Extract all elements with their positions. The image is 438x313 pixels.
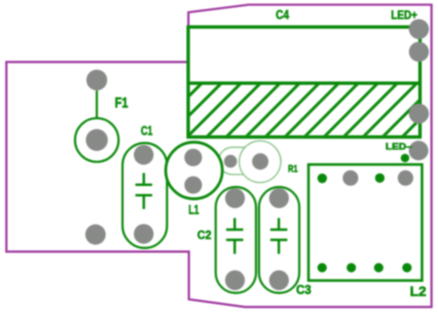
pad L1 pin 2 [184, 176, 202, 194]
L2 pin dots top row [317, 174, 327, 184]
pad R1 left [224, 155, 237, 168]
L2 pin dots bottom row [317, 263, 326, 272]
svg-text:C2: C2 [197, 228, 211, 242]
capacitor C1 body [123, 143, 168, 248]
C4 divider line [188, 81, 420, 84]
pad F1 top [86, 70, 107, 91]
fuse F1 body [75, 118, 119, 162]
svg-text:C3: C3 [296, 282, 311, 297]
capacitor C1 symbol [135, 173, 152, 209]
pad C3 top [269, 188, 289, 208]
inductor L2 body [309, 165, 423, 281]
svg-text:F1: F1 [115, 94, 128, 111]
inductor L1 body [166, 142, 223, 199]
pad bottom-left [85, 224, 105, 244]
C4 hatch [148, 83, 438, 137]
pad C1 bottom [134, 224, 154, 244]
capacitor C2 body [216, 187, 256, 293]
svg-text:LED+: LED+ [391, 8, 417, 22]
svg-text:L2: L2 [410, 284, 426, 299]
svg-text:LED–: LED– [386, 141, 413, 152]
pad LED+ 2 [409, 42, 429, 62]
capacitor C3 body [259, 187, 299, 293]
resistor R1 outline (light) [219, 141, 281, 183]
svg-text:C4: C4 [276, 8, 289, 22]
capacitor C2 symbol [226, 218, 243, 254]
LED- pin dot [401, 154, 410, 163]
pad R1 center [252, 153, 268, 169]
pad L2 top 2 [398, 170, 414, 186]
pad C3 bottom [269, 270, 289, 290]
pad L2 top 1 [343, 170, 359, 186]
pad L1 pin 1 [184, 149, 202, 167]
capacitor C3 symbol [270, 218, 287, 254]
svg-text:R1: R1 [288, 163, 298, 175]
pad C1 top [134, 145, 154, 165]
pad LED+ 1 [409, 19, 429, 39]
pad C2 bottom [225, 270, 245, 290]
pad F1 center [86, 129, 108, 151]
capacitor C4 body [188, 27, 420, 137]
fuse F1 wire [96, 91, 98, 119]
pad LED- [409, 141, 429, 161]
pad C4 right [409, 104, 429, 124]
svg-text:L1: L1 [189, 203, 200, 217]
svg-text:C1: C1 [141, 124, 153, 138]
pad C2 top [225, 188, 245, 208]
